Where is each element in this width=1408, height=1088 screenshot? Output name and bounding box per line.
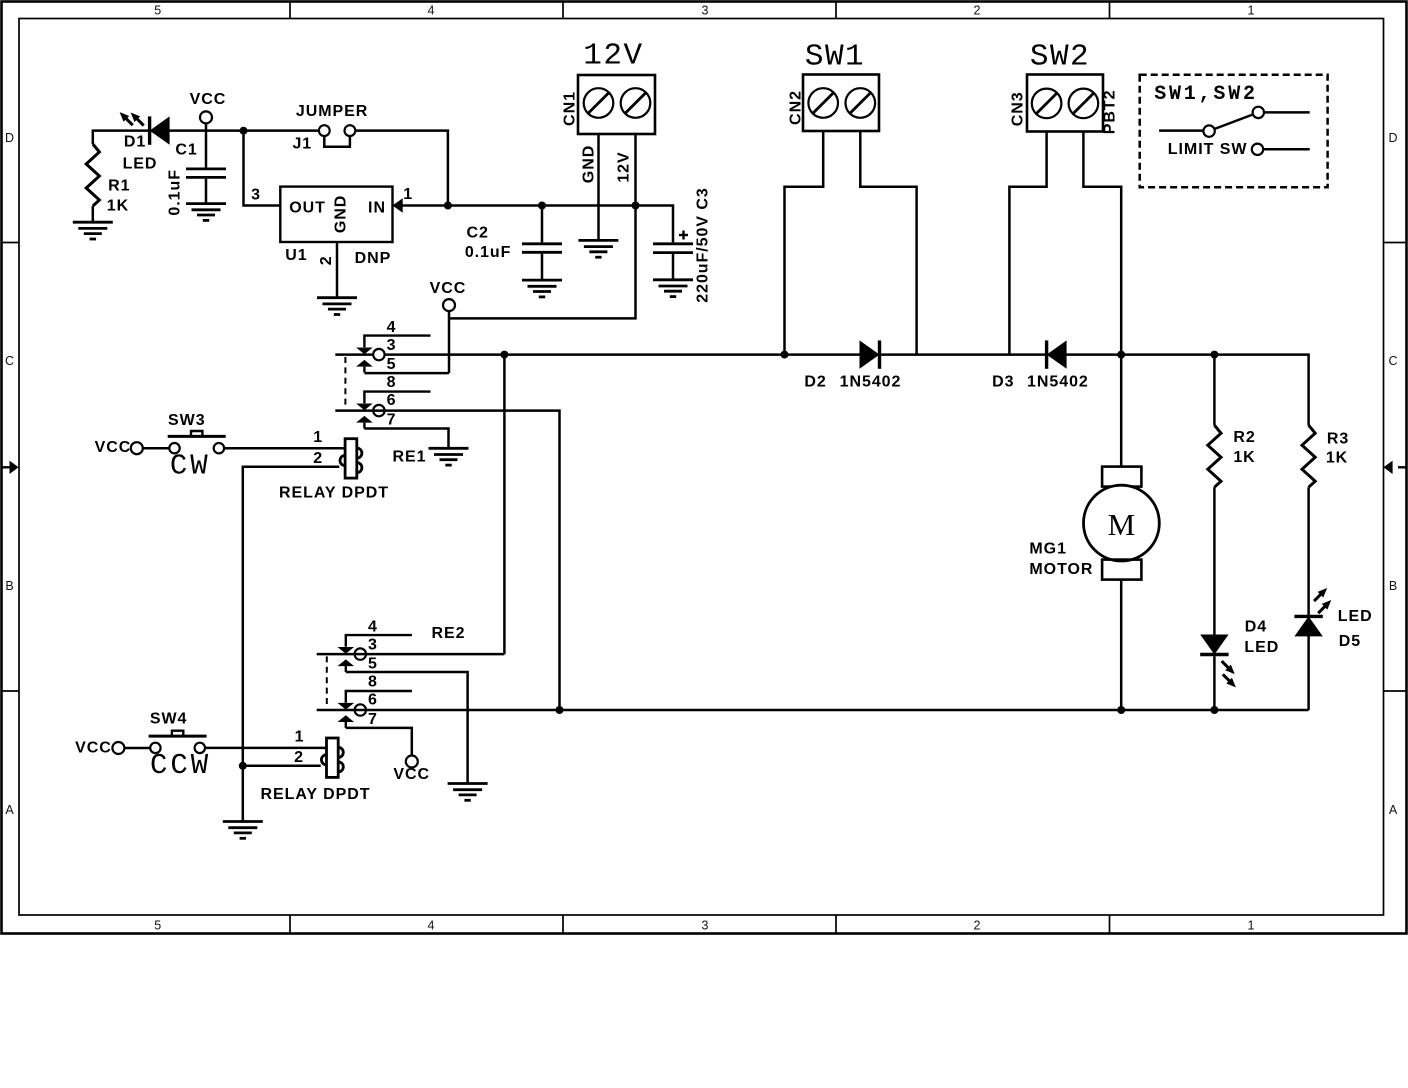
svg-text:LED: LED bbox=[1244, 639, 1279, 656]
node junction motor bottom bbox=[1117, 706, 1125, 714]
svg-text:4: 4 bbox=[428, 4, 435, 18]
LED D1 bbox=[117, 109, 170, 172]
connector CN3 (SW2) bbox=[1009, 40, 1118, 135]
svg-text:LIMIT SW: LIMIT SW bbox=[1168, 141, 1248, 158]
wire RE2 pin5 to ground bbox=[346, 672, 468, 783]
resistor R2 bbox=[1208, 355, 1256, 635]
wire jumper to IN node bbox=[355, 131, 448, 206]
frame inner border bbox=[19, 19, 1384, 916]
svg-text:1: 1 bbox=[295, 729, 305, 746]
svg-text:IN: IN bbox=[368, 200, 386, 217]
svg-text:VCC: VCC bbox=[75, 739, 112, 756]
wire VCC stem down to RE1 pin5 bbox=[448, 311, 451, 373]
ground (U1 pin2) bbox=[317, 298, 357, 315]
svg-text:2: 2 bbox=[318, 255, 335, 265]
wire U1 pin3 riser bbox=[244, 131, 281, 206]
legend box SW1,SW2 limit switch bbox=[1140, 75, 1328, 188]
connector CN1 12V input bbox=[562, 39, 656, 135]
svg-text:R2: R2 bbox=[1233, 429, 1255, 446]
svg-text:0.1uF: 0.1uF bbox=[167, 169, 184, 216]
svg-text:VCC: VCC bbox=[430, 280, 467, 297]
ground (RE2 pin5) bbox=[448, 784, 488, 801]
capacitor C3 bbox=[653, 187, 712, 302]
ground (CN1) bbox=[578, 240, 618, 257]
svg-text:J1: J1 bbox=[292, 136, 312, 153]
svg-text:8: 8 bbox=[368, 674, 378, 691]
svg-text:7: 7 bbox=[387, 411, 397, 428]
svg-text:CW: CW bbox=[170, 450, 211, 483]
power VCC (near D1) bbox=[190, 91, 227, 131]
wire U1 pin2 to ground bbox=[336, 242, 339, 297]
svg-text:4: 4 bbox=[428, 919, 435, 933]
jumper J1 bbox=[292, 103, 368, 153]
svg-text:CN3: CN3 bbox=[1009, 91, 1026, 126]
wire RE2 common3 bbox=[317, 653, 505, 656]
resistor R1 bbox=[86, 144, 130, 222]
svg-text:3: 3 bbox=[387, 337, 397, 354]
svg-text:5: 5 bbox=[387, 356, 397, 373]
regulator U1 bbox=[251, 186, 413, 267]
svg-text:D4: D4 bbox=[1245, 618, 1267, 635]
svg-text:D5: D5 bbox=[1339, 633, 1361, 650]
svg-text:1N5402: 1N5402 bbox=[840, 374, 902, 391]
connector CN2 (SW1) bbox=[788, 40, 880, 132]
wire bottom rail (RE2 common6) bbox=[317, 709, 1309, 712]
svg-text:A: A bbox=[5, 803, 14, 817]
wire CN1 12V leg bbox=[634, 134, 637, 206]
relay RE1 contact set B (pins 8/6/7) bbox=[356, 374, 430, 428]
relay RE2 coil bbox=[261, 729, 371, 803]
node junction SW2 right bbox=[1117, 351, 1125, 359]
svg-text:1: 1 bbox=[403, 186, 413, 203]
svg-text:7: 7 bbox=[368, 711, 378, 728]
svg-text:C2: C2 bbox=[467, 225, 489, 242]
frame center arrow left bbox=[2, 461, 19, 474]
svg-text:M: M bbox=[1108, 507, 1136, 542]
svg-text:B: B bbox=[5, 579, 13, 593]
resistor R3 bbox=[1302, 425, 1349, 616]
svg-text:VCC: VCC bbox=[190, 91, 227, 108]
LED D4 bbox=[1200, 618, 1279, 710]
power VCC (center) bbox=[430, 280, 467, 311]
svg-text:LED: LED bbox=[123, 156, 158, 173]
svg-text:3: 3 bbox=[702, 4, 709, 18]
svg-text:PBT2: PBT2 bbox=[1102, 90, 1119, 135]
svg-text:1: 1 bbox=[1248, 919, 1255, 933]
svg-text:CN2: CN2 bbox=[788, 90, 805, 125]
svg-text:MG1: MG1 bbox=[1029, 540, 1067, 557]
svg-text:VCC: VCC bbox=[95, 439, 132, 456]
svg-text:R1: R1 bbox=[108, 178, 130, 195]
svg-text:D1: D1 bbox=[124, 133, 146, 150]
svg-text:6: 6 bbox=[387, 392, 397, 409]
ground (C2) bbox=[522, 280, 562, 297]
node junction at C1/VCC wire bbox=[240, 127, 248, 135]
diode D2 1N5402 bbox=[804, 340, 901, 390]
svg-text:1: 1 bbox=[1248, 4, 1255, 18]
wire RE1 coil pin2 to ground chain bbox=[243, 467, 339, 821]
svg-text:12V: 12V bbox=[616, 151, 633, 182]
svg-text:CN1: CN1 bbox=[562, 91, 579, 126]
frame center arrow right bbox=[1384, 461, 1407, 474]
wire top rail bbox=[335, 355, 1308, 426]
svg-text:D: D bbox=[1388, 131, 1397, 145]
svg-text:RE1: RE1 bbox=[393, 449, 427, 466]
svg-text:3: 3 bbox=[251, 187, 261, 204]
svg-text:SW1,SW2: SW1,SW2 bbox=[1154, 83, 1258, 106]
svg-text:SW1: SW1 bbox=[805, 40, 865, 75]
svg-text:5: 5 bbox=[154, 919, 161, 933]
node junction 12V bbox=[632, 202, 640, 210]
node junction RE1 common rail bbox=[500, 351, 508, 359]
svg-text:LED: LED bbox=[1338, 608, 1373, 625]
wire VCC link to 12V node bbox=[449, 206, 636, 319]
svg-text:DNP: DNP bbox=[355, 250, 392, 267]
svg-text:D: D bbox=[5, 131, 14, 145]
pushbutton SW4 bbox=[149, 711, 212, 782]
ground (C3) bbox=[653, 280, 693, 297]
svg-text:GND: GND bbox=[581, 145, 598, 183]
svg-text:OUT: OUT bbox=[289, 200, 326, 217]
wire RE2 pin7 to VCC bbox=[346, 728, 412, 756]
node junction coil pin2 bbox=[239, 762, 247, 770]
node junction C2 bbox=[538, 202, 546, 210]
svg-text:VCC: VCC bbox=[393, 766, 430, 783]
node junction SW1 left bbox=[781, 351, 789, 359]
node junction R2 top bbox=[1210, 351, 1218, 359]
wire 12V main rail bbox=[393, 206, 674, 243]
svg-text:1K: 1K bbox=[1326, 450, 1348, 467]
wire SW3 to RE1 coil pin1 bbox=[224, 447, 345, 450]
svg-text:C: C bbox=[5, 354, 14, 368]
svg-text:3: 3 bbox=[368, 637, 378, 654]
svg-text:5: 5 bbox=[368, 655, 378, 672]
wire CN2 right leg to rail bbox=[860, 131, 916, 355]
svg-text:A: A bbox=[1389, 803, 1398, 817]
svg-text:SW3: SW3 bbox=[168, 412, 206, 429]
wire VCC to SW4 bbox=[125, 747, 151, 750]
svg-text:SW2: SW2 bbox=[1030, 40, 1090, 75]
relay RE1 mechanical link bbox=[344, 357, 346, 408]
power VCC (SW4) bbox=[75, 739, 124, 756]
svg-text:D2: D2 bbox=[804, 374, 826, 391]
LED D5 bbox=[1294, 585, 1372, 710]
svg-text:GND: GND bbox=[333, 195, 350, 233]
svg-text:SW4: SW4 bbox=[150, 711, 188, 728]
ground (relay coil chain) bbox=[223, 822, 263, 839]
svg-text:CCW: CCW bbox=[150, 749, 211, 782]
svg-text:8: 8 bbox=[387, 374, 397, 391]
svg-text:4: 4 bbox=[368, 619, 378, 636]
svg-text:B: B bbox=[1389, 579, 1397, 593]
node junction IN bbox=[444, 202, 452, 210]
svg-text:RE2: RE2 bbox=[432, 625, 466, 642]
svg-text:RELAY DPDT: RELAY DPDT bbox=[279, 485, 389, 502]
wire R1 top to LED D1 to jumper bbox=[93, 131, 319, 144]
svg-text:1N5402: 1N5402 bbox=[1027, 374, 1089, 391]
svg-text:C: C bbox=[1388, 354, 1397, 368]
svg-text:D3: D3 bbox=[992, 374, 1014, 391]
svg-text:RELAY DPDT: RELAY DPDT bbox=[261, 786, 371, 803]
svg-text:4: 4 bbox=[387, 319, 397, 336]
svg-text:2: 2 bbox=[294, 749, 304, 766]
ground (R1) bbox=[73, 222, 113, 239]
ground (C1) bbox=[186, 204, 226, 221]
wire RE1 pin5 to VCC stem bbox=[364, 372, 449, 375]
pushbutton SW3 bbox=[168, 412, 226, 483]
svg-text:R3: R3 bbox=[1327, 431, 1349, 448]
svg-text:JUMPER: JUMPER bbox=[296, 103, 368, 120]
svg-text:0.1uF: 0.1uF bbox=[465, 244, 512, 261]
capacitor C2 bbox=[465, 206, 562, 281]
wire CN3 right leg to rail bbox=[1083, 132, 1121, 355]
svg-text:1: 1 bbox=[313, 429, 323, 446]
svg-text:12V: 12V bbox=[583, 39, 643, 74]
relay RE2 contact set A (pins 4/3/5) bbox=[338, 619, 466, 673]
svg-text:U1: U1 bbox=[285, 247, 307, 264]
svg-text:2: 2 bbox=[974, 919, 981, 933]
diode D3 1N5402 bbox=[992, 340, 1089, 390]
svg-text:C1: C1 bbox=[175, 142, 197, 159]
motor MG1 bbox=[1029, 355, 1159, 710]
relay RE2 contact set B (pins 8/6/7) bbox=[338, 674, 412, 728]
svg-text:3: 3 bbox=[702, 919, 709, 933]
wire RE2 coil pin2 to ground chain bbox=[243, 765, 321, 768]
ground (RE1 pin7) bbox=[429, 448, 469, 465]
relay RE2 mechanical link bbox=[326, 656, 328, 707]
svg-text:5: 5 bbox=[154, 4, 161, 18]
relay RE1 contact set A (pins 4/3/5) bbox=[356, 319, 430, 373]
wire CN3 left leg to rail bbox=[1009, 132, 1046, 355]
wire RE1 common6 to bottom rail bbox=[335, 411, 559, 710]
power VCC (RE2 pin7) bbox=[393, 756, 430, 784]
wire SW4 to RE2 coil pin1 bbox=[205, 747, 327, 750]
node junction D4 bottom bbox=[1210, 706, 1218, 714]
node junction RE1-6 riser on bottom rail bbox=[556, 706, 564, 714]
wire RE1 pin7 to ground bbox=[364, 429, 448, 448]
wire CN2 left leg to rail bbox=[785, 131, 824, 355]
svg-text:1K: 1K bbox=[107, 198, 129, 215]
svg-text:MOTOR: MOTOR bbox=[1029, 561, 1093, 578]
svg-text:220uF/50V C3: 220uF/50V C3 bbox=[695, 187, 712, 302]
power VCC (SW3) bbox=[95, 439, 143, 456]
wire CN1 GND leg bbox=[597, 134, 600, 240]
wire riser to RE2 common bbox=[503, 355, 506, 654]
svg-text:2: 2 bbox=[313, 450, 323, 467]
svg-text:6: 6 bbox=[368, 692, 378, 709]
wire VCC to SW3 bbox=[143, 447, 170, 450]
relay RE1 coil bbox=[279, 429, 426, 502]
capacitor C1 bbox=[167, 131, 226, 216]
svg-text:1K: 1K bbox=[1233, 449, 1255, 466]
svg-text:2: 2 bbox=[974, 4, 981, 18]
